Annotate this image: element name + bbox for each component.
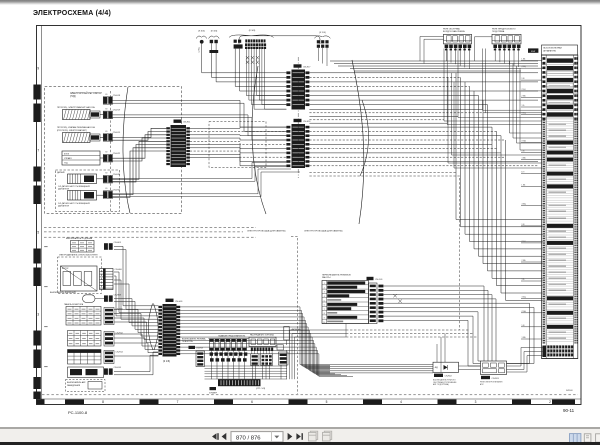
svg-text:CN-H01: CN-H01 — [175, 301, 183, 303]
connector CN-H08 — [104, 295, 122, 302]
wire: dashed vertical harness boundary right — [459, 178, 461, 330]
svg-text:4: 4 — [324, 296, 325, 298]
svg-text:ВЫКЛЮЧАТЕЛЬ ДВИЖЕНИЯ: ВЫКЛЮЧАТЕЛЬ ДВИЖЕНИЯ — [50, 291, 77, 294]
wire bundle: top connectors to CN-E17 — [202, 43, 287, 109]
wire bundle: fuse block to CTL strip — [205, 350, 288, 379]
zone tick marks along left margin — [44, 246, 47, 367]
unit A2: wiper motor assembly (dashed) — [58, 254, 102, 294]
svg-text:ВЫКЛЮЧАТЕЛЬ АВТ.: ВЫКЛЮЧАТЕЛЬ АВТ. — [67, 381, 86, 384]
svg-text:(К 3/4): (К 3/4) — [211, 31, 218, 33]
toolbar icon: partially clipped — [596, 434, 600, 442]
relay K3: APS power relay — [480, 361, 507, 386]
svg-text:Л 8А: Л 8А — [522, 140, 527, 143]
connector K3/4 group 2 (2-pin) — [209, 31, 220, 53]
svg-text:CN-R02: CN-R02 — [445, 376, 453, 378]
svg-text:Ю: Ю — [106, 131, 108, 133]
svg-text:(К 1/4): (К 1/4) — [319, 32, 326, 34]
svg-text:5: 5 — [37, 231, 39, 235]
assembly box: electronic governor (dashed outline) — [45, 87, 182, 214]
svg-text:CN-H06: CN-H06 — [115, 269, 123, 271]
svg-text:ДВИГАТЕЛЯ: ДВИГАТЕЛЯ — [58, 204, 70, 207]
antenna W1 — [277, 327, 301, 366]
svg-text:БЛОК: БЛОК — [64, 154, 70, 156]
toolbar icon: bookmark — [584, 434, 591, 442]
switch S6: swing mode switch — [182, 338, 206, 367]
svg-text:L 8Б: L 8Б — [522, 184, 527, 186]
wire bus: top-right horizontals — [318, 48, 538, 71]
svg-text:5 В: 5 В — [522, 325, 526, 327]
svg-text:8: 8 — [102, 400, 104, 404]
connector CN-H16 — [104, 367, 122, 375]
svg-text:АНТЕННА: АНТЕННА — [292, 328, 302, 331]
connector K3/4 group 4 (8-pin header) — [229, 30, 274, 49]
svg-text:Л 84: Л 84 — [522, 241, 526, 243]
svg-text:ВЫСОКОВОЛЬТНАЯ: ВЫСОКОВОЛЬТНАЯ — [543, 47, 562, 50]
switch S3: travel switch (capsule) — [50, 291, 104, 302]
svg-text:8: 8 — [324, 313, 325, 315]
relay K1: air intake heater relay — [443, 27, 472, 50]
svg-text:АВТ. ПОДОГРЕВА): АВТ. ПОДОГРЕВА) — [433, 383, 449, 386]
connector CN-H14 (pin column) — [104, 351, 124, 364]
svg-text:1 ВБ: 1 ВБ — [522, 158, 527, 160]
svg-text:CN-H14: CN-H14 — [116, 352, 124, 354]
svg-text:870 / 876: 870 / 876 — [236, 435, 261, 441]
junction box A3 — [249, 333, 276, 365]
connector CN-H01 — [158, 299, 183, 363]
wire bundle: extra rows between CN-E17 and CN-E16 — [309, 109, 485, 123]
toolbar button: previous page — [222, 433, 227, 440]
wire: sensor lines joining bus — [112, 162, 301, 196]
wire: dash-dot centerline through CN-E17/CN-E16 — [297, 57, 299, 178]
wire: diode box to relay — [459, 365, 481, 367]
svg-text:3: 3 — [324, 292, 325, 294]
svg-text:CN-H08: CN-H08 — [114, 295, 122, 297]
svg-text:SWD08: SWD08 — [566, 390, 573, 392]
wire bundle: CN-E17 to right area — [309, 73, 538, 105]
svg-text:-ВД: -ВД — [434, 367, 438, 369]
svg-text:CN-E19: CN-E19 — [113, 110, 121, 112]
connector CN-E17 — [286, 64, 311, 109]
svg-text:6: 6 — [324, 305, 325, 307]
wire: dashed edge through governor connectors — [110, 91, 112, 212]
wire: long dashed harness boundaries across sheet — [44, 227, 256, 229]
svg-text:1 Б: 1 Б — [522, 279, 526, 281]
svg-text:Ю: Ю — [106, 188, 108, 190]
svg-text:CN-D01: CN-D01 — [375, 279, 383, 281]
svg-text:5: 5 — [326, 400, 328, 404]
wire bundle: risers right of antenna — [290, 330, 347, 379]
solenoid Y1: proportional solenoid (hatched) — [57, 106, 104, 120]
svg-text:(ГУД): (ГУД) — [70, 96, 76, 98]
svg-text:ЗАМЕДЛЕНИЯ: ЗАМЕДЛЕНИЯ — [67, 384, 81, 387]
svg-text:3 БЦ: 3 БЦ — [522, 296, 527, 298]
svg-text:ПОДОГРЕВА: ПОДОГРЕВА — [492, 30, 505, 33]
svg-text:CN-E16: CN-E16 — [303, 121, 311, 123]
harness boundary box: dashed (between CN-E11 and CN-E16) — [209, 122, 266, 168]
connector CN-H03 — [104, 242, 122, 250]
wire: drops into diode box — [436, 344, 438, 362]
svg-text:CN-H03: CN-H03 — [114, 242, 122, 244]
frame: left zone ruler — [33, 85, 40, 100]
svg-text:ЗУММЕР: ЗУММЕР — [209, 392, 218, 394]
svg-text:CN-R03: CN-R03 — [492, 378, 500, 380]
svg-text:УПРАВЛ.: УПРАВЛ. — [64, 157, 72, 160]
wire bundle: extra L-drops to terminal strip — [448, 61, 542, 168]
svg-text:ЭЛЕКТРОННЫЙ РЕГУЛЯТОР: ЭЛЕКТРОННЫЙ РЕГУЛЯТОР — [70, 92, 102, 95]
svg-text:ВЫКЛЮЧАТЕЛЬ РЕЖИМА: ВЫКЛЮЧАТЕЛЬ РЕЖИМА — [182, 338, 206, 341]
sensor B2: engine speed sensor (capsule) — [58, 191, 104, 208]
svg-text:3 БЦ: 3 БЦ — [522, 113, 527, 115]
connector K3/4 group 3 (2-pin) — [234, 40, 243, 49]
buzzer H1 — [209, 387, 218, 394]
svg-text:ВЫКЛЮЧАТЕЛЬ ПОДЪЕМА: ВЫКЛЮЧАТЕЛЬ ПОДЪЕМА — [66, 237, 93, 240]
toolbar page-number box — [231, 432, 283, 442]
svg-text:2: 2 — [324, 287, 325, 289]
svg-text:5 В: 5 В — [522, 151, 526, 153]
wire: relay outputs to strip bottom rows — [507, 348, 543, 367]
connector CN-E19 — [103, 108, 121, 118]
svg-text:ГУД: ГУД — [64, 163, 68, 165]
wire bundle: bottom horizontals to diode box — [330, 365, 433, 373]
solenoid Y2: proportional solenoid (hatched) — [57, 126, 104, 142]
wire bundle: CN-H01 to bottom-right routing — [180, 307, 353, 377]
svg-text:CN-E17: CN-E17 — [303, 66, 311, 68]
fuse block F1 — [209, 334, 249, 361]
svg-text:CN-E07: CN-E07 — [113, 189, 121, 191]
svg-text:3: 3 — [475, 400, 477, 404]
connector CN-H12 (pin column) — [104, 332, 124, 347]
svg-text:9: 9 — [37, 67, 39, 71]
terminal strip X1: bottom pin grid — [542, 346, 578, 359]
connector CN-E16 — [286, 119, 311, 168]
svg-text:6: 6 — [251, 400, 253, 404]
wire: dashed cab harness boundary — [297, 238, 299, 394]
svg-text:1 ВБ: 1 ВБ — [522, 337, 527, 339]
connector CN-H06 (hatched block) — [100, 269, 123, 290]
toolbar button: last page — [296, 433, 303, 440]
switch panel P3 (table with header) — [68, 350, 102, 365]
wire bundle: governor connectors to CN-E11 — [112, 100, 287, 197]
svg-text:АППАРАТУРА: АППАРАТУРА — [543, 49, 556, 52]
wire bundle: CN-E16 to right drop columns — [309, 127, 538, 166]
svg-text:Ц 8БЦ: Ц 8БЦ — [199, 46, 201, 52]
svg-text:ЭЛЕКТРОПРОВОДКА (ДЛЯ КАБИНЫ): ЭЛЕКТРОПРОВОДКА (ДЛЯ КАБИНЫ) — [247, 230, 286, 233]
toolbar button: previous view (disabled) — [309, 431, 318, 441]
svg-text:Б 9: Б 9 — [522, 172, 525, 174]
svg-text:2 ВБ: 2 ВБ — [522, 95, 527, 97]
svg-text:ПОВОРОТА: ПОВОРОТА — [182, 340, 193, 343]
wire stubs: terminal strip inputs — [521, 59, 542, 340]
unit A1: governor control block — [62, 151, 104, 165]
wire: harness loop arc (center) — [252, 66, 266, 214]
wire: long drops from relays — [458, 49, 542, 118]
svg-text:Ю: Ю — [106, 108, 108, 110]
svg-text:РАСПРЕДЕЛИТ. КОРОБКА: РАСПРЕДЕЛИТ. КОРОБКА — [250, 333, 274, 336]
svg-text:4: 4 — [400, 400, 402, 404]
svg-text:ДВИГАТЕЛЯ: ДВИГАТЕЛЯ — [58, 187, 70, 190]
connector CN-H10 (pin column) — [104, 308, 124, 325]
toolbar button: next view (disabled) — [323, 431, 332, 441]
twisted pair marks (mode switch lines) — [393, 294, 401, 303]
wire: harness loop arc (governor box) — [123, 87, 130, 213]
svg-text:РАБОТЫ: РАБОТЫ — [322, 276, 331, 279]
connector CN-D01 (mode switch) — [367, 277, 384, 324]
svg-text:(К 3/4): (К 3/4) — [249, 30, 256, 32]
svg-text:1: 1 — [324, 283, 325, 285]
wire: dashed lines below mode switch — [346, 329, 470, 331]
wire: harness loop arc (mid right) — [360, 100, 369, 176]
svg-text:Ю: Ю — [106, 152, 108, 154]
connector CN-E11 — [166, 120, 191, 168]
svg-text:Ю: Ю — [106, 94, 108, 96]
svg-text:ЭЛЕКТРОДВИГАТЕЛЬ СТЕКЛООЧИСТИТ: ЭЛЕКТРОДВИГАТЕЛЬ СТЕКЛООЧИСТИТЕЛЯ — [59, 254, 98, 257]
wire: dashed pair below CN-E16 — [309, 172, 456, 174]
switch S5: auto-decel switch (dashed box) — [66, 380, 106, 392]
svg-text:Л 84: Л 84 — [522, 89, 526, 91]
svg-text:9 В: 9 В — [522, 78, 526, 80]
wire bundle: vertical drop columns to terminal strip — [456, 73, 543, 300]
svg-text:5: 5 — [324, 300, 325, 302]
svg-text:4 ВЦ: 4 ВЦ — [522, 66, 527, 68]
svg-text:1 Б: 1 Б — [522, 105, 526, 107]
relay K2: preheat relay — [492, 28, 521, 50]
wire: harness loop arc (bottom-left) — [148, 304, 153, 351]
svg-text:КОНТ: КОНТ — [531, 51, 536, 53]
svg-text:ПЕРЕКЛЮЧАТЕЛЬ РЕЖИМОВ: ПЕРЕКЛЮЧАТЕЛЬ РЕЖИМОВ — [322, 273, 351, 276]
wire: harness loop arc (right of center) — [352, 60, 364, 224]
svg-text:7: 7 — [324, 309, 325, 311]
diode VD1 box — [433, 362, 459, 386]
toolbar icon: page layout (active, blue) — [570, 434, 581, 443]
wire bundle: mode switch outputs — [383, 286, 534, 366]
wire bundle: relay pins to bus — [420, 37, 519, 70]
svg-text:(CTL 1/4): (CTL 1/4) — [256, 388, 265, 390]
terminal strip X1: high-voltage apparatus board — [528, 45, 578, 359]
svg-text:3: 3 — [37, 313, 39, 317]
svg-text:9: 9 — [324, 318, 325, 320]
connector CN-E18 — [103, 94, 121, 104]
svg-text:CN-E15: CN-E15 — [113, 132, 121, 134]
svg-text:Ю: Ю — [106, 173, 108, 175]
svg-text:ДАТЧИК: ДАТЧИК — [57, 171, 66, 174]
connector CN-E07 — [103, 188, 121, 198]
switch S4: lighter / lamp switch — [68, 367, 104, 378]
svg-text:7: 7 — [177, 400, 179, 404]
wire: bottom dashed harness line — [42, 394, 578, 396]
svg-text:CN-H16: CN-H16 — [114, 367, 122, 369]
svg-text:2: 2 — [549, 400, 551, 404]
monitor panel P1 (table) — [64, 303, 101, 325]
switch S2: boost mode switch (table) — [66, 237, 94, 252]
svg-text:ПРОПОРЦ. ЭЛЕКТРОМАГНИТ НАСОСА: ПРОПОРЦ. ЭЛЕКТРОМАГНИТ НАСОСА — [57, 106, 95, 109]
svg-text:ПРОПОРЦ. КЛАПАН РЕЖИМА НАСОСА: ПРОПОРЦ. КЛАПАН РЕЖИМА НАСОСА — [57, 126, 95, 129]
svg-text:Л 8А: Л 8А — [522, 310, 527, 313]
svg-text:10: 10 — [323, 322, 325, 324]
svg-text:2 ВБ: 2 ВБ — [522, 260, 527, 262]
switch S1: mode selector panel — [322, 273, 369, 323]
svg-text:(ПРОПОРЦ. ЭЛЕКТРОМАГНИТ): (ПРОПОРЦ. ЭЛЕКТРОМАГНИТ) — [57, 129, 87, 132]
connector CTL 1/4 (bottom strip) — [218, 379, 265, 390]
connector K1/4 (6-pin) — [314, 32, 330, 48]
assembly box: engine speed sensors (dashed outline) — [56, 170, 120, 212]
svg-text:(К 3/4): (К 3/4) — [198, 31, 205, 33]
wire: rounded harness jumper over groups — [239, 36, 320, 44]
svg-text:ПЛАВКИЙ ПРЕДОХРАНИТЕЛЬ: ПЛАВКИЙ ПРЕДОХРАНИТЕЛЬ — [218, 334, 246, 337]
connector CN-E15 — [103, 131, 121, 141]
connector K3/4 group 1 (single pin) — [196, 31, 207, 53]
wire bundle: device connectors to CN-H01 — [114, 246, 158, 374]
svg-text:CN-E31: CN-E31 — [113, 174, 121, 176]
frame: bottom zone ruler — [37, 399, 45, 404]
connector CN-E31 — [103, 173, 121, 183]
svg-text:CN-E22: CN-E22 — [113, 153, 121, 155]
svg-text:4 ВЦ: 4 ВЦ — [522, 204, 527, 206]
svg-text:(К 1/6): (К 1/6) — [163, 360, 170, 363]
svg-text:CN-E18: CN-E18 — [113, 95, 121, 97]
svg-text:CN-E11: CN-E11 — [183, 122, 191, 124]
frame: schematic sheet border — [37, 26, 582, 405]
svg-text:ВОЗДУХОЗАБОРНИКА: ВОЗДУХОЗАБОРНИКА — [443, 30, 465, 33]
wire bundle: CN-E11 to CN-E16 — [190, 127, 287, 166]
toolbar button: next page — [288, 433, 293, 440]
switch panel P2 (table) — [68, 331, 102, 347]
svg-text:CN-H18: CN-H18 — [196, 348, 203, 350]
svg-text:L 8Б: L 8Б — [522, 59, 527, 61]
toolbar button: first page — [212, 433, 219, 440]
sensor B1: engine speed sensor (capsule) — [57, 171, 104, 191]
svg-text:7: 7 — [37, 149, 39, 153]
svg-text:9 В: 9 В — [522, 224, 526, 226]
svg-text:ПАНЕЛЬ МОНИТОРА: ПАНЕЛЬ МОНИТОРА — [64, 303, 84, 306]
connector CN-E22 — [103, 152, 121, 162]
svg-text:ЭЛЕКТРОПРОВОДКА (ДЛЯ КАБИНЫ): ЭЛЕКТРОПРОВОДКА (ДЛЯ КАБИНЫ) — [304, 230, 343, 233]
twisted pair marks — [246, 56, 259, 64]
